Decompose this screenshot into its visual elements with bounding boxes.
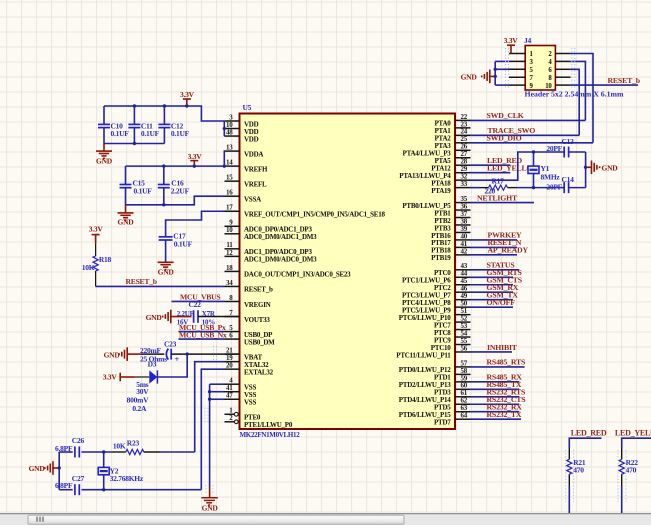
capacitor C13 plates xyxy=(563,147,565,158)
svg-text:56: 56 xyxy=(461,344,468,352)
svg-text:10: 10 xyxy=(545,83,552,90)
ground below C10 xyxy=(103,144,105,151)
ground below C17 xyxy=(158,261,174,263)
svg-text:3.3V: 3.3V xyxy=(504,36,519,45)
svg-text:0.1UF: 0.1UF xyxy=(111,129,130,138)
capacitor C12 xyxy=(163,106,165,124)
U5 pin 24 (PTA2) xyxy=(455,134,471,136)
wire RESET_b to pin 34 xyxy=(96,285,225,287)
svg-text:32.768KHz: 32.768KHz xyxy=(110,474,144,483)
junction VDDA tap xyxy=(223,164,226,167)
U5 pin 14 (VREFH) xyxy=(225,165,240,167)
svg-text:VREFH: VREFH xyxy=(244,165,268,173)
U5 pin 53 (PTC8) xyxy=(455,329,471,331)
svg-text:0.1UF: 0.1UF xyxy=(171,129,190,138)
U5 pin 21 (VBAT) xyxy=(225,353,240,355)
U5 pin 47 (VSS) xyxy=(225,398,240,400)
svg-text:PTA19: PTA19 xyxy=(431,187,451,195)
wire net STATUS (pin row 20) xyxy=(470,269,519,271)
wire PTA18 to crystal xyxy=(470,152,564,180)
wire crystal center vertical xyxy=(533,152,535,188)
capacitor C17 xyxy=(159,236,173,238)
svg-text:16: 16 xyxy=(226,189,233,197)
svg-text:INHIBIT: INHIBIT xyxy=(487,343,518,352)
svg-text:Header 5x2 2.54mm X 6.1mm: Header 5x2 2.54mm X 6.1mm xyxy=(525,89,625,98)
U5 pin 15 (VREFL) xyxy=(225,180,240,182)
svg-text:6.8PF: 6.8PF xyxy=(55,444,73,453)
U5 pin 62 (PTD5) xyxy=(455,403,471,405)
U5 pin 26 (PTA4/LLWU_P3) xyxy=(455,149,471,151)
svg-text:0.2A: 0.2A xyxy=(132,404,147,413)
svg-text:R23: R23 xyxy=(127,439,140,448)
resistor R17 xyxy=(489,185,508,190)
crystal Y2 xyxy=(103,452,105,490)
svg-text:42: 42 xyxy=(461,247,468,255)
svg-text:VDD: VDD xyxy=(244,135,259,143)
junction crystal top xyxy=(532,150,535,153)
svg-text:PTC11/LLWU_P11: PTC11/LLWU_P11 xyxy=(396,351,451,359)
svg-text:RS232_TX: RS232_TX xyxy=(487,410,522,419)
svg-text:GND: GND xyxy=(118,218,135,227)
wire net TRACE_SWO (pin row 2) xyxy=(470,134,579,136)
ground at crystal xyxy=(586,166,592,168)
wire C22 to VOUT33 xyxy=(198,316,240,318)
U5 pin 7 (VOUT33) xyxy=(225,316,240,318)
wire net RS232_TX (pin row 40) xyxy=(470,418,521,420)
svg-text:AP_READY: AP_READY xyxy=(488,246,529,255)
U5 pin 43 (PTC0) xyxy=(455,269,471,271)
svg-text:10K: 10K xyxy=(113,441,126,450)
junction rail taps xyxy=(133,104,136,107)
wire net INHIBIT (pin row 31) xyxy=(470,351,512,353)
svg-text:GND: GND xyxy=(461,73,478,82)
U5 pin 40 (PTB17) xyxy=(455,239,471,241)
resistor R21 xyxy=(567,459,572,474)
junction VSS bus xyxy=(208,390,211,393)
wire MCU_USB_Nx to USB0_DM xyxy=(179,338,225,340)
J4 pin 10 xyxy=(555,84,570,86)
grip dots near R21 xyxy=(565,450,567,502)
junction Y2 bottom xyxy=(102,488,105,491)
svg-text:RESET_b: RESET_b xyxy=(608,76,641,85)
resistor R23 xyxy=(126,449,144,454)
U5 pin 42 (PTB19) xyxy=(455,254,471,256)
svg-text:17: 17 xyxy=(226,204,233,212)
svg-text:MCU_USB_Nx: MCU_USB_Nx xyxy=(179,330,227,339)
J4 pin 3 xyxy=(509,60,525,62)
wire crystal bottom right xyxy=(569,187,586,189)
op-amp U5 body (MCU MK22FN1M0VLH12) xyxy=(240,114,456,430)
U5 pin 10 (VDD) xyxy=(225,128,240,130)
U5 pin 4 (VSS) xyxy=(225,383,240,385)
wire 3.3V rail to VDD xyxy=(104,106,224,121)
J4 pin 2 xyxy=(555,53,570,55)
svg-text:RS485_RTS: RS485_RTS xyxy=(487,358,526,367)
svg-text:ADC0_DM0/ADC1_DM3: ADC0_DM0/ADC1_DM3 xyxy=(244,233,317,241)
J4 pin 8 xyxy=(555,76,570,78)
svg-text:12: 12 xyxy=(226,249,233,257)
U5 pin 28 (PTA12) xyxy=(455,164,471,166)
junction crystal bottom xyxy=(532,186,535,189)
svg-text:MK22FN1M0VLH12: MK22FN1M0VLH12 xyxy=(240,431,301,439)
wire EXTAL32 down to Y2 xyxy=(201,369,224,490)
svg-text:J4: J4 xyxy=(524,36,532,45)
junction at J4 ground xyxy=(494,75,497,78)
U5 pin 55 (PTC10) xyxy=(455,344,471,346)
wire net SWD_CLK (pin row 0) xyxy=(470,119,585,121)
svg-text:D3: D3 xyxy=(148,359,157,368)
U5 pin 16 (VSSA) xyxy=(225,195,240,197)
svg-text:48: 48 xyxy=(226,128,233,136)
svg-text:C13: C13 xyxy=(562,137,575,146)
svg-text:SWD_DIO: SWD_DIO xyxy=(487,134,522,143)
wire VDDA drop xyxy=(223,151,225,166)
capacitor C11 xyxy=(133,106,135,124)
U5 pin 9 (ADC0_DP0/ADC1_DP3) xyxy=(225,225,240,227)
wire net GSM_CTS (pin row 22) xyxy=(470,284,513,286)
crystal Y1 xyxy=(528,166,539,173)
U5 pin 61 (PTD4/LLWU_P14) xyxy=(455,396,471,398)
svg-text:VREF_OUT/CMP1_IN5/CMP0_IN5/ADC: VREF_OUT/CMP1_IN5/CMP0_IN5/ADC1_SE18 xyxy=(244,211,385,219)
svg-text:470: 470 xyxy=(626,466,637,475)
svg-text:NETLIGHT: NETLIGHT xyxy=(477,193,518,202)
U5 pin 17 (VREF_OUT/CMP1_IN5/CMP0_IN5/ADC1_SE18) xyxy=(225,210,240,212)
resistor R18 xyxy=(95,243,97,256)
U5 pin 25 (PTA3) xyxy=(455,142,471,144)
svg-text:6.8PF: 6.8PF xyxy=(55,481,73,490)
svg-text:20: 20 xyxy=(226,362,233,370)
wire net RS485_RX (pin row 35) xyxy=(470,381,519,383)
U5 pin 59 (PTD2/LLWU_P13) xyxy=(455,381,471,383)
svg-text:0.1UF: 0.1UF xyxy=(134,187,153,196)
wire VSS bus xyxy=(209,384,211,487)
svg-text:2.2UF: 2.2UF xyxy=(171,187,190,196)
svg-text:PTE1/LLWU_P0: PTE1/LLWU_P0 xyxy=(244,421,293,429)
U5 pin 3 (VDD) xyxy=(225,120,240,122)
wire net PWRKEY (pin row 16) xyxy=(470,239,517,241)
svg-text:ADC1_DM0/ADC0_DM3: ADC1_DM0/ADC0_DM3 xyxy=(244,256,317,264)
connector J4 body xyxy=(525,46,555,91)
wire net RESET_N (pin row 17) xyxy=(470,246,517,248)
U5 pin 32 (PTA18) xyxy=(455,179,471,181)
U5 pin 57 (PTD0/LLWU_P12) xyxy=(455,366,471,368)
grip dots near R22 xyxy=(617,450,619,502)
wire crystal top right xyxy=(569,151,586,153)
U5 pin 41 (PTB18) xyxy=(455,246,471,248)
U5 pin 29 (PTA13/LLWU_P4) xyxy=(455,172,471,174)
U5 pin 60 (PTD3) xyxy=(455,388,471,390)
wire net GSM_RX (pin row 23) xyxy=(470,291,513,293)
junction gnd tap xyxy=(58,466,61,469)
junction crystal gnd tap xyxy=(584,166,587,169)
J4 pin 5 xyxy=(509,68,525,70)
svg-text:GND: GND xyxy=(602,163,619,172)
svg-text:C22: C22 xyxy=(189,300,202,309)
U5 pin 8 (VREGIN) xyxy=(225,300,240,302)
svg-text:2.2UF: 2.2UF xyxy=(177,310,194,318)
wire C26 to R23 xyxy=(82,451,113,453)
svg-text:3.3V: 3.3V xyxy=(180,90,195,99)
svg-text:VOUT33: VOUT33 xyxy=(244,316,270,324)
svg-text:GND: GND xyxy=(202,503,219,512)
wire LED_RED xyxy=(569,438,601,448)
svg-text:GND: GND xyxy=(146,313,163,322)
junction VBAT/diode xyxy=(186,352,189,355)
J4 pin 6 xyxy=(555,68,570,70)
svg-text:VDDA: VDDA xyxy=(244,150,263,158)
wire R23 to XTAL32 xyxy=(144,451,160,453)
wire J4 pin4 to SWD_CLK xyxy=(571,61,586,120)
U5 pin 54 (PTC9) xyxy=(455,336,471,338)
wire net RS232_CTS (pin row 38) xyxy=(470,403,519,405)
wire crystal bottom rail xyxy=(508,187,517,189)
capacitor C26 xyxy=(59,451,72,453)
svg-text:C26: C26 xyxy=(72,436,85,445)
svg-text:PTB19: PTB19 xyxy=(431,254,451,262)
grip dots near VBAT xyxy=(213,346,215,361)
svg-text:47: 47 xyxy=(226,392,233,400)
svg-text:LED_YELLOW: LED_YELLOW xyxy=(615,429,651,438)
U5 pin 10 (ADC0_DM0/ADC1_DM3) xyxy=(225,233,240,235)
U5 pin 22 (PTA0) xyxy=(455,119,471,121)
U5 pin 44 (PTC1/LLWU_P6) xyxy=(455,276,471,278)
wire cap bottom rail xyxy=(104,143,164,145)
junction 3.3V tap xyxy=(193,164,196,167)
U5 pin 39 (PTB16) xyxy=(455,231,471,233)
svg-text:R17: R17 xyxy=(492,176,505,185)
svg-text:LED_RED: LED_RED xyxy=(571,429,607,438)
ground below VSS bus xyxy=(209,487,211,498)
svg-text:220: 220 xyxy=(485,187,496,196)
svg-text:VREFL: VREFL xyxy=(244,180,267,188)
J4 pin 4 xyxy=(555,60,570,62)
wire left vertical of Y2 block xyxy=(58,452,60,490)
svg-text:PTD7: PTD7 xyxy=(434,419,451,427)
wire VREFH rail xyxy=(126,165,225,167)
svg-text:15: 15 xyxy=(226,174,233,182)
wire XTAL32 down to R23 xyxy=(195,362,225,452)
U5 pin 35 (PTB0/LLWU_P5) xyxy=(455,202,471,204)
U5 pin 20 (EXTAL32) xyxy=(225,368,240,370)
U5 pin 41 (VSS) xyxy=(225,391,240,393)
wire net ON/OFF (pin row 25) xyxy=(470,306,513,308)
svg-text:18: 18 xyxy=(226,264,233,272)
U5 pin 23 (PTA1) xyxy=(455,127,471,129)
U5 pin 11 (ADC1_DP0/ADC0_DP3) xyxy=(225,248,240,250)
wire net GSM_RTS (pin row 21) xyxy=(470,276,513,278)
svg-text:VSSA: VSSA xyxy=(244,196,261,204)
wire crystal right vertical xyxy=(585,152,587,188)
wire net RS232_RTS (pin row 37) xyxy=(470,396,519,398)
svg-text:GND: GND xyxy=(96,156,113,165)
wire net LED_YELLOW (pin row 7) xyxy=(470,172,510,174)
wire PTA19 through R17 xyxy=(470,187,480,189)
capacitor C16 xyxy=(163,166,165,184)
svg-text:VSS: VSS xyxy=(244,399,256,407)
wire MCU_VBUS to VREGIN xyxy=(172,300,225,302)
wire VREF_OUT to C17 xyxy=(166,211,225,237)
U5 pin 1 (PTE0) xyxy=(225,413,235,415)
U5 pin 56 (PTC11/LLWU_P11) xyxy=(455,351,471,353)
svg-text:C27: C27 xyxy=(72,474,85,483)
wire VSSA rail xyxy=(126,196,225,205)
U5 pin 48 (VDD) xyxy=(225,135,240,137)
svg-text:20PF: 20PF xyxy=(546,182,562,191)
svg-text:C23: C23 xyxy=(164,339,177,348)
wire net RS232_RX (pin row 39) xyxy=(470,411,519,413)
wire net LED_RED (pin row 6) xyxy=(470,164,510,166)
capacitor C10 xyxy=(103,106,105,124)
svg-text:GND: GND xyxy=(158,268,175,277)
grip dots near bottom ground xyxy=(205,485,207,493)
U5 pin 27 (PTA5) xyxy=(455,157,471,159)
svg-text:SWD_CLK: SWD_CLK xyxy=(487,111,524,120)
wire VDD bus vertical xyxy=(223,121,225,136)
capacitor C15 xyxy=(125,166,127,184)
U5 pin 37 (PTB2) xyxy=(455,217,471,219)
U5 pin 50 (PTC5/LLWU_P9) xyxy=(455,306,471,308)
U5 pin 36 (PTB1) xyxy=(455,209,471,211)
U5 pin 49 (PTC4/LLWU_P8) xyxy=(455,299,471,301)
svg-text:+: + xyxy=(175,354,180,364)
wire net RS485_TX (pin row 36) xyxy=(470,388,519,390)
svg-text:USB0_DM: USB0_DM xyxy=(244,338,275,346)
J4 pin 9 xyxy=(509,84,525,86)
wire MCU_USB_Px to USB0_DP xyxy=(179,331,225,333)
wire LED_YELLOW xyxy=(622,438,651,448)
wire net AP_READY (pin row 18) xyxy=(470,254,517,256)
svg-text:X7R: X7R xyxy=(202,310,216,318)
wire J4 pin2 to SWD_DIO xyxy=(571,54,593,143)
U5 pin 51 (PTC6/LLWU_P10) xyxy=(455,314,471,316)
svg-text:RESET_b: RESET_b xyxy=(244,286,273,294)
svg-text:10K: 10K xyxy=(82,263,95,272)
wire VDD row stubs xyxy=(223,128,225,130)
svg-text:VREGIN: VREGIN xyxy=(244,301,271,309)
U5 pin 18 (DAC0_OUT/CMP1_IN3/ADC0_SE23) xyxy=(225,270,240,272)
U5 pin 13 (VDDA) xyxy=(225,150,240,152)
capacitor C23 (polarized) xyxy=(166,349,168,360)
U5 pin 52 (PTC7) xyxy=(455,321,471,323)
svg-text:U5: U5 xyxy=(243,103,252,112)
svg-text:8MHz: 8MHz xyxy=(541,172,561,181)
wire net NETLIGHT (pin row 11) xyxy=(470,202,534,204)
svg-text:470: 470 xyxy=(573,466,584,475)
svg-text:0.1UF: 0.1UF xyxy=(141,129,160,138)
wire net RS485_RTS (pin row 33) xyxy=(470,366,525,368)
svg-text:DAC0_OUT/CMP1_IN3/ADC0_SE23: DAC0_OUT/CMP1_IN3/ADC0_SE23 xyxy=(244,271,351,279)
wire J4 pin6 to TRACE_SWO xyxy=(571,69,580,135)
svg-text:34: 34 xyxy=(226,279,233,287)
wire C23 to VBAT xyxy=(171,353,239,355)
svg-text:3.3V: 3.3V xyxy=(103,373,118,382)
U5 pin 63 (PTD6/LLWU_P15) xyxy=(455,411,471,413)
resistor R22 xyxy=(619,459,624,474)
U5 pin 64 (PTD7) xyxy=(455,418,471,420)
junction C16 taps xyxy=(162,164,165,167)
U5 pin 34 (RESET_b) xyxy=(225,285,240,287)
ground below C15 xyxy=(125,205,127,213)
wire net GSM_TX (pin row 24) xyxy=(470,299,513,301)
wire net SWD_DIO (pin row 3) xyxy=(470,142,593,144)
wire D3 to VBAT net xyxy=(157,354,187,377)
svg-text:20PF: 20PF xyxy=(546,144,562,153)
U5 pin 12 (ADC1_DM0/ADC0_DM3) xyxy=(225,255,240,257)
U5 pin 46 (PTC3/LLWU_P7) xyxy=(455,291,471,293)
svg-text:3.3V: 3.3V xyxy=(89,224,104,233)
capacitor C14 plates xyxy=(563,182,565,193)
U5 pin 38 (PTB3) xyxy=(455,224,471,226)
junction VDD bus xyxy=(223,127,226,130)
U5 pin 58 (PTD1) xyxy=(455,373,471,375)
U5 pin 6 (USB0_DM) xyxy=(225,338,240,340)
svg-text:C14: C14 xyxy=(562,175,575,184)
svg-text:GND: GND xyxy=(104,350,121,359)
U5 pin 5 (USB0_DP) xyxy=(225,331,240,333)
svg-text:EXTAL32: EXTAL32 xyxy=(244,368,274,376)
svg-text:14: 14 xyxy=(226,159,233,167)
svg-text:13: 13 xyxy=(226,143,233,151)
U5 pin 2 (PTE1/LLWU_P0) xyxy=(225,421,235,423)
J4 pin 1 xyxy=(509,53,525,55)
J4 pin 7 xyxy=(509,76,525,78)
wire C27 to EXTAL32 xyxy=(82,489,202,491)
wire RESET_b from J4 pin10 xyxy=(571,84,638,86)
grip dots near PTE pins xyxy=(204,408,206,424)
D3 diode symbol xyxy=(135,376,150,378)
U5 pin 19 (XTAL32) xyxy=(225,361,240,363)
svg-text:RESET_b: RESET_b xyxy=(126,277,157,286)
svg-text:GND: GND xyxy=(29,464,46,473)
capacitor C22 xyxy=(193,310,195,323)
svg-text:ON/OFF: ON/OFF xyxy=(487,298,516,307)
wire J4 ground bus xyxy=(494,61,496,85)
svg-text:64: 64 xyxy=(461,412,468,420)
svg-text:10: 10 xyxy=(226,226,233,234)
junction Y2 top xyxy=(102,450,105,453)
svg-text:0.1UF: 0.1UF xyxy=(174,239,193,248)
U5 pin 45 (PTC2) xyxy=(455,284,471,286)
svg-text:33: 33 xyxy=(461,180,468,188)
U5 pin 33 (PTA19) xyxy=(455,187,471,189)
grip dots near J4 xyxy=(505,48,507,88)
svg-text:R18: R18 xyxy=(99,255,112,264)
svg-text:3.3V: 3.3V xyxy=(188,152,203,161)
capacitor C27 xyxy=(59,489,72,491)
